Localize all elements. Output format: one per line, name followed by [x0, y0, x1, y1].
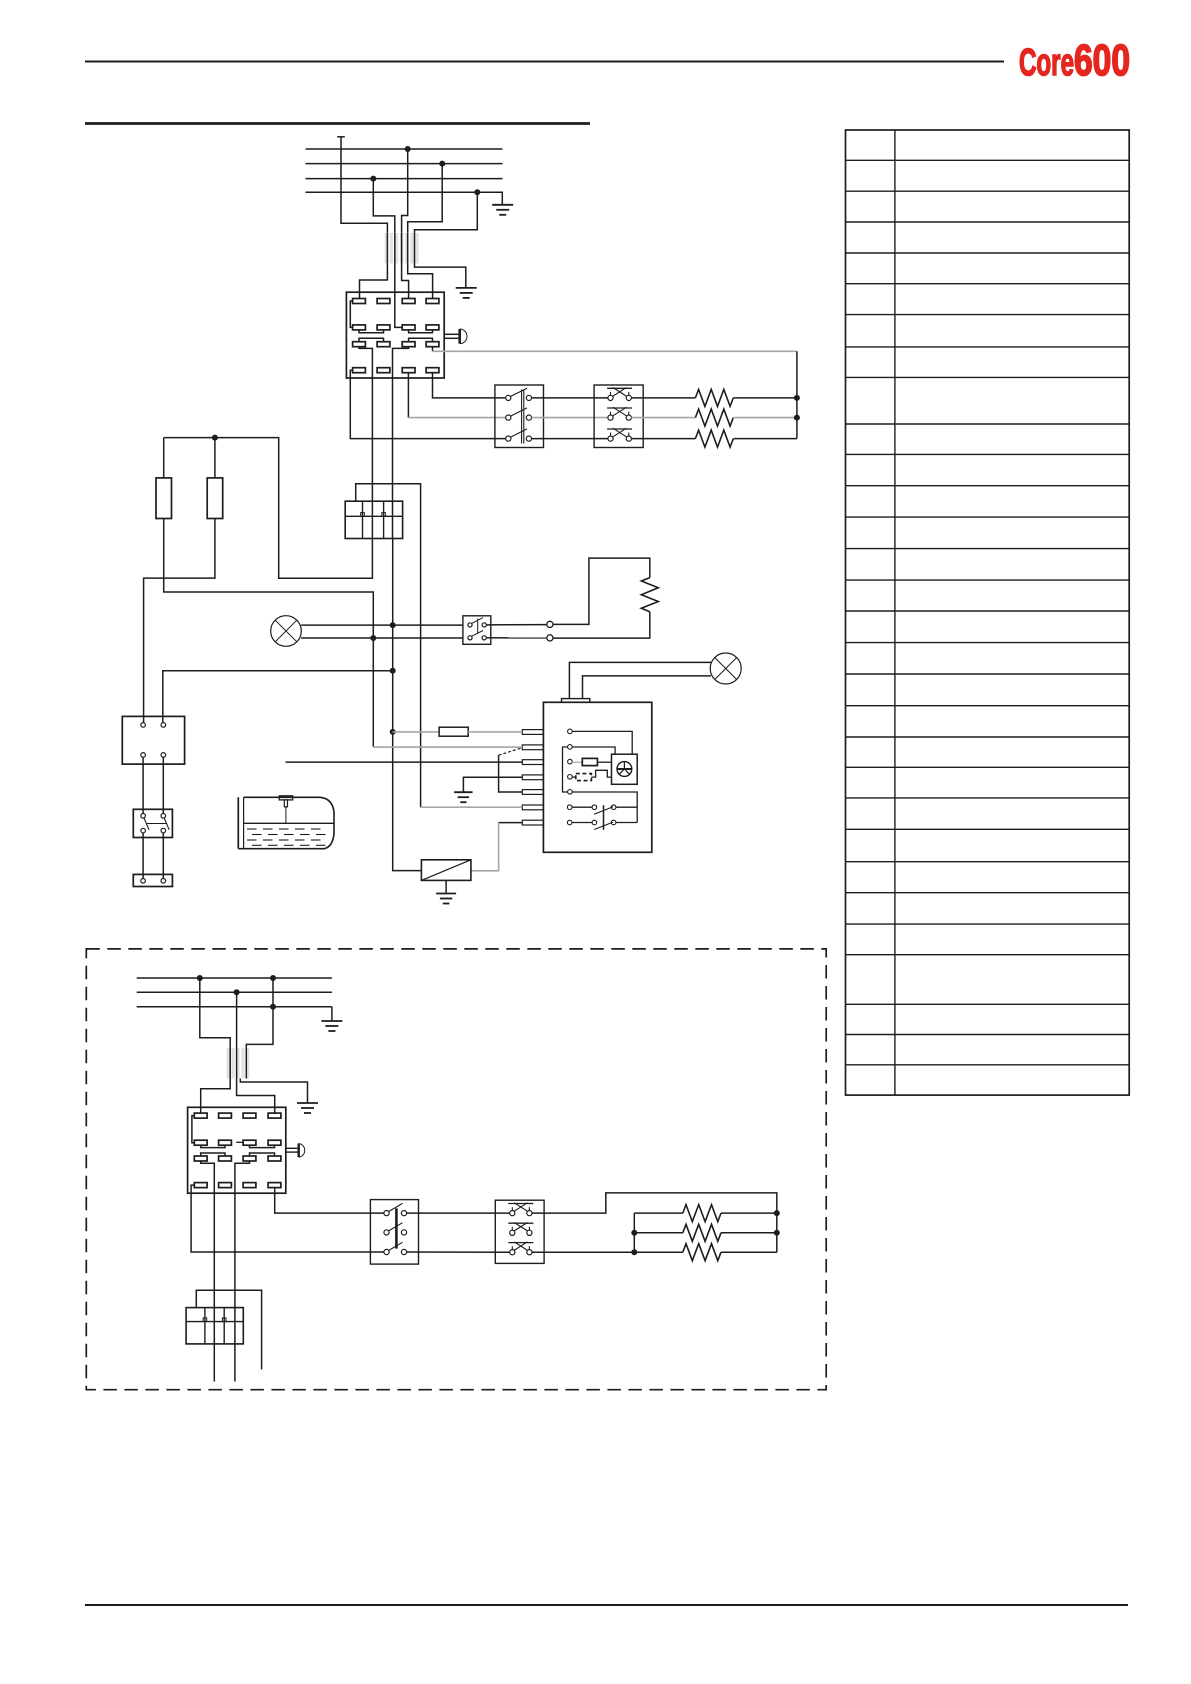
node lamp branch	[370, 635, 376, 641]
variant wire T2 to S4 T14	[237, 1079, 275, 1113]
S1 link T11-T21	[350, 301, 352, 327]
wire: overload to resistor bottom	[532, 1251, 634, 1253]
wire: overload to heater R2 (gray)	[631, 417, 695, 419]
variant wire T2 to earth	[240, 1079, 307, 1104]
variant transformer T2 core	[227, 1048, 230, 1079]
A1 resistor	[572, 761, 582, 763]
wire: R3 to star point	[733, 438, 797, 440]
wire: B1 to switch S2 right	[162, 757, 164, 813]
wire: T1 out to S1 terminal 14	[408, 264, 433, 299]
variant bus line L3	[137, 1006, 332, 1008]
heating element R4	[641, 578, 658, 612]
variant wire L1b tap to transformer	[246, 978, 273, 1048]
variant resistor R7	[683, 1244, 721, 1261]
pilot lamp H2	[710, 653, 741, 684]
A1 potentiometer	[612, 754, 638, 784]
S4 link T11-T21	[192, 1116, 194, 1143]
A1 sensor (dashed)	[572, 776, 576, 778]
variant resistor R6	[683, 1224, 721, 1241]
ground (mains earth)	[492, 204, 513, 206]
ground (Y1 earth)	[436, 893, 456, 895]
transformer T2 winding wire	[245, 1048, 247, 1079]
wire: R2 to star point (gray)	[733, 417, 797, 419]
ground (transformer earth)	[456, 287, 477, 289]
wire: F1 to control line	[164, 519, 374, 747]
S4 handle knob	[298, 1144, 300, 1158]
wire: overload to heater R1	[631, 397, 695, 399]
wire blade to pin5	[499, 755, 523, 792]
variant node tie3	[631, 1249, 637, 1255]
wire: S4 T41 phase2	[191, 1185, 384, 1252]
variant block tail 2	[234, 1344, 236, 1382]
bus line L2	[306, 163, 503, 165]
wire Y1 to earth	[445, 880, 447, 893]
wire: R6 to right bus	[721, 1232, 777, 1234]
wire: R7 to right bus	[721, 1251, 777, 1253]
lamp H1	[271, 616, 302, 647]
wire: S4 T44 phase1	[275, 1188, 384, 1213]
svg-text:Core: Core	[1019, 42, 1074, 84]
node on L4	[474, 189, 480, 195]
connector pin bottom	[547, 635, 553, 641]
transformer T2 winding wire	[229, 1048, 231, 1079]
svg-text:600: 600	[1074, 36, 1130, 85]
variant node right1	[774, 1210, 780, 1216]
wire: aux feed to resistor bank (gray)	[433, 350, 797, 352]
variant resistor tie bar	[633, 1213, 635, 1252]
switch S2	[133, 809, 172, 837]
ground (variant mains earth)	[321, 1020, 342, 1022]
wire: S2 to terminal X2 right	[162, 833, 164, 879]
wire+fuse to pin1 (gray)	[393, 731, 439, 733]
wire: L4 to earth	[477, 192, 502, 205]
variant wire L1 tap to transformer	[200, 978, 230, 1048]
A1 left link	[563, 747, 568, 792]
terminal block X1	[345, 501, 402, 538]
node on L3	[370, 176, 376, 182]
S4 link T31-T32	[201, 1153, 225, 1156]
wire: tie to R6	[634, 1232, 683, 1234]
wire: feed to fuse F1	[163, 438, 165, 478]
wire: S1 T43 phase to contactor	[407, 373, 409, 418]
variant node tie2	[631, 1230, 637, 1236]
wire: S2 to terminal X2 left	[142, 833, 144, 879]
wire: S1 T43 phase to contactor (gray)	[408, 417, 505, 419]
ground (pin4 earth)	[454, 791, 473, 793]
wire: K2 to overload row1	[407, 1212, 510, 1214]
node on L1	[405, 146, 411, 152]
wire: L2 tap to transformer	[408, 164, 443, 233]
wire: S4 T31 to block	[201, 1161, 215, 1344]
wire: B1 to switch S2 left	[142, 757, 144, 813]
control unit A1 body	[543, 702, 651, 852]
wire to pin2 (gray)	[373, 746, 522, 748]
variant wire L3 to earth	[331, 1007, 333, 1021]
wire: R1 to star point	[733, 397, 797, 399]
A1 inner terminals	[568, 729, 573, 734]
wire: R5 to right bus	[721, 1212, 777, 1214]
S1 link T31-T32	[359, 338, 384, 342]
wire: F2 to pressure switch	[144, 519, 215, 723]
wire: S4 T33 to block	[235, 1161, 250, 1344]
wire: tap with T-bar to transformer	[337, 136, 345, 138]
main switch S1 body and terminals	[346, 292, 444, 378]
variant thermal overload F11	[495, 1200, 544, 1263]
transformer T1 core	[385, 233, 388, 264]
wire: S1 T44 phase to contactor	[433, 373, 506, 398]
fuse F1	[156, 478, 172, 519]
wire: K1 to overload row3	[532, 438, 608, 440]
connector pin top	[547, 621, 553, 627]
node B lamp	[390, 622, 396, 628]
wire: heater loop bottom	[553, 612, 650, 638]
wire: star point vertical	[796, 351, 798, 438]
wire: T1 out to S1 terminal 13	[402, 264, 409, 299]
page top rule	[85, 61, 1004, 63]
water tank	[237, 797, 239, 848]
bus line L3	[306, 178, 503, 180]
S1 link T21-T22	[359, 330, 384, 333]
wire: K2 to overload row3	[407, 1251, 510, 1253]
relay coil Y1	[421, 860, 471, 881]
wire: tie to R5	[634, 1212, 683, 1214]
S1 handle shaft	[444, 333, 459, 335]
thermal overload F10	[594, 385, 643, 448]
variant node L1a	[197, 975, 203, 981]
section heading underline	[85, 122, 590, 125]
wire: S3 to connector top	[487, 624, 547, 626]
wire: heater loop top	[553, 558, 650, 624]
contactor K1	[495, 385, 544, 448]
switch blade at pin2	[499, 748, 521, 755]
wire: overload to heater R3	[631, 438, 695, 440]
S4 link T21-T22	[201, 1145, 225, 1147]
A1 door contact row	[567, 805, 572, 810]
S1 handle knob	[458, 329, 461, 344]
node B fuse	[390, 729, 396, 735]
wire: control feed down	[164, 438, 373, 579]
resistor R1	[695, 389, 733, 406]
control unit pin stubs 1-7	[522, 730, 543, 735]
variant bus line L2	[137, 991, 332, 993]
wire to pin3	[286, 761, 523, 763]
wire: H1 to door switch top	[301, 624, 463, 626]
node on L2	[439, 161, 445, 167]
variant block tail 1	[213, 1344, 215, 1382]
resistor R3	[695, 430, 733, 447]
node fuse feed	[212, 435, 218, 441]
wire: H2 to control unit a	[569, 662, 711, 698]
resistor R2	[695, 409, 733, 426]
wire: pressure switch feed	[163, 671, 393, 723]
variant bus line L1	[137, 977, 332, 979]
Core600 logo	[1019, 36, 1130, 85]
transformer T2 winding wire	[236, 1048, 238, 1079]
pressure switch B1	[122, 716, 184, 764]
terminal X2	[133, 874, 172, 886]
wire: overload jog to resistor top	[532, 1193, 777, 1252]
wire: control bus B down	[393, 539, 422, 871]
wire: T1 out to earth	[415, 264, 466, 288]
variant switch S4 body and terminals	[188, 1107, 286, 1193]
variant wire T2 to S4 T11	[201, 1079, 231, 1113]
wire: L4 tap to transformer	[415, 192, 478, 233]
variant bracket feed	[196, 1290, 261, 1369]
wire: L3 tap to transformer	[373, 179, 395, 233]
variant wire L2 tap to transformer	[236, 992, 238, 1048]
wire: feed to fuse F2	[214, 438, 216, 478]
wire: T1 out to S1 terminal 23	[395, 264, 402, 328]
variant contactor K2	[370, 1200, 418, 1265]
transformer T1 winding wire	[414, 233, 416, 264]
page bottom rule	[85, 1604, 1128, 1606]
wire: S1 T34 aux feed	[432, 347, 434, 352]
A1 wire c1 to pot	[572, 731, 632, 754]
variant node L3	[270, 1004, 276, 1010]
wire: S3 to connector bottom	[487, 637, 547, 639]
A1 door contact row	[567, 820, 572, 825]
wire: H2 to control unit b	[583, 676, 711, 699]
wire: S1 T41 phase to contactor	[350, 370, 505, 438]
transformer T1 winding wire	[386, 233, 388, 264]
A1 wire c5 bus	[572, 792, 637, 823]
wire pin4 to earth	[463, 777, 522, 792]
node star R1	[794, 395, 800, 401]
bus line L4	[306, 191, 503, 193]
S1 link T33-T34	[409, 338, 433, 342]
wire: S1 T33 to fuse block	[393, 347, 409, 539]
variant node right2	[774, 1230, 780, 1236]
node B pressure	[390, 668, 396, 674]
wire: bracket feed over block	[356, 484, 421, 808]
transformer T1 winding wire	[407, 233, 409, 264]
wire to pin6 (gray)	[421, 806, 523, 808]
A1 contact link bar	[603, 805, 605, 830]
S4 stub T23	[236, 1141, 243, 1143]
variant node L1b	[270, 975, 276, 981]
S4 link T33-T34	[250, 1153, 275, 1156]
wire: S1 T31 to fuse block	[359, 347, 372, 539]
S4 link T23-T24	[250, 1145, 275, 1147]
variant resistor R5	[683, 1205, 721, 1222]
fuse F2	[207, 478, 223, 519]
S4 handle shaft	[286, 1147, 298, 1149]
wire: H1 to door switch bottom	[301, 637, 463, 639]
variant terminal block X3	[186, 1308, 243, 1344]
bus line L1	[306, 148, 503, 150]
transformer T1 winding wire	[394, 233, 396, 264]
S1 link T23-T24	[409, 330, 433, 333]
wire: L1 tap to transformer	[402, 149, 408, 233]
thermostat switch S3	[463, 616, 491, 645]
wire: K1 to overload row1	[532, 397, 608, 399]
A1 wire c2 to pot	[572, 747, 615, 754]
legend table	[846, 130, 1130, 1095]
transformer T1 winding wire	[401, 233, 403, 264]
wire: tie to R7	[634, 1251, 683, 1253]
wire: T1 out to S1 terminal 11	[360, 264, 388, 299]
wire pin7 to relay (gray)	[499, 822, 523, 824]
ground (T2 earth)	[297, 1102, 318, 1104]
dashed enclosure	[86, 949, 826, 1390]
wire: K1 to overload row2 (gray)	[532, 417, 608, 419]
variant node L2	[234, 989, 240, 995]
node star R2	[794, 415, 800, 421]
